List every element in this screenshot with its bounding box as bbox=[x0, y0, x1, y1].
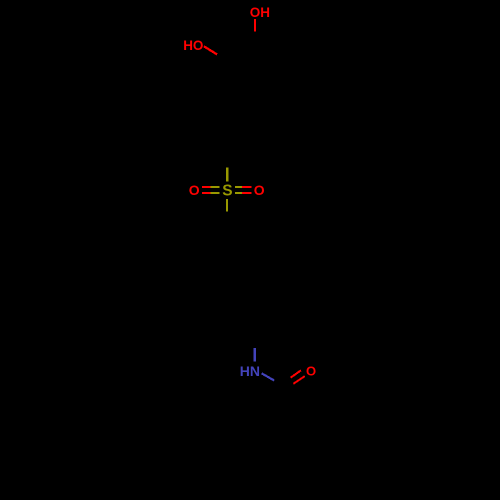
double bond S1=O4 lower line red half bbox=[242, 192, 252, 194]
bond O1-C red half bbox=[254, 19, 256, 32]
invisible carbon skeleton (black bonds on black background) bbox=[227, 46, 307, 476]
wire carbonyl C to bottom ring bbox=[255, 386, 307, 476]
svg-text:OH: OH bbox=[250, 5, 270, 20]
svg-text:O: O bbox=[254, 182, 265, 198]
svg-text:O: O bbox=[189, 182, 200, 198]
svg-text:O: O bbox=[306, 363, 316, 378]
svg-text:HN: HN bbox=[240, 363, 260, 379]
double bond S1=O4 upper line red half bbox=[242, 186, 252, 188]
double bond S1=O3 upper line olive half bbox=[211, 186, 220, 188]
double bond C=O5 upper line red half bbox=[291, 370, 301, 377]
svg-text:S: S bbox=[222, 183, 232, 200]
bond O2-C red half bbox=[204, 46, 217, 54]
wire N to carbonyl C bbox=[274, 380, 281, 386]
wire chain sulfonyl down bbox=[227, 211, 255, 348]
wire ring A catechol bbox=[229, 46, 281, 106]
bond C-N1 blue half bbox=[254, 348, 257, 361]
svg-text:HO: HO bbox=[183, 38, 203, 53]
double bond S1=O3 lower line red half bbox=[202, 192, 211, 194]
bond N1-C blue half bbox=[262, 373, 275, 380]
wire chain ring A to sulfonyl bbox=[227, 106, 255, 168]
double bond S1=O3 upper line red half bbox=[202, 186, 211, 188]
double bond S1=O3 lower line olive half bbox=[211, 192, 220, 194]
bond C-S1 upper olive half bbox=[226, 167, 228, 181]
double bond C=O5 lower line red half bbox=[293, 376, 304, 384]
double bond S1=O4 upper line olive half bbox=[235, 186, 242, 188]
bond S1-C lower olive half bbox=[226, 199, 228, 211]
double bond S1=O4 lower line olive half bbox=[235, 192, 242, 194]
